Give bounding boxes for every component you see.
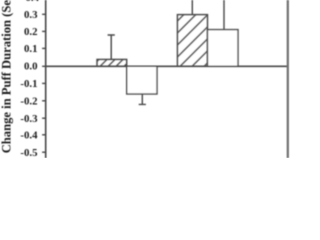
tick 0.2 (42, 30, 46, 32)
tick -0.5 (42, 151, 46, 153)
error bar 2 (139, 94, 146, 104)
tick -0.2 (42, 100, 46, 102)
tick 0.1 (42, 47, 46, 49)
svg-text:-0.3: -0.3 (20, 113, 38, 125)
svg-text:0.1: 0.1 (24, 43, 38, 55)
svg-text:0.2: 0.2 (24, 26, 38, 38)
zero baseline (45, 65, 288, 67)
bar 1 (hatched, +0.04) (97, 59, 127, 66)
svg-text:0.3: 0.3 (24, 9, 38, 21)
right edge vertical line (287, 0, 289, 158)
tick 0.3 (42, 13, 46, 15)
svg-text:-0.1: -0.1 (20, 78, 37, 90)
error bar 3 (cut at top) (191, 0, 193, 15)
tick -0.1 (42, 82, 46, 84)
bar 4 (open, +0.21) (208, 30, 239, 67)
tick -0.4 (42, 134, 46, 136)
y-axis line (45, 0, 47, 158)
svg-text:-0.5: -0.5 (20, 147, 37, 158)
svg-text:Change in Puff Duration (Sec): Change in Puff Duration (Sec) (0, 0, 14, 153)
error bar 4 (cut at top) (223, 0, 225, 30)
svg-text:-0.2: -0.2 (20, 96, 37, 108)
error bar 1 (108, 35, 115, 59)
tick -0.3 (42, 117, 46, 119)
bar 3 (hatched, +0.30) (177, 15, 207, 67)
svg-text:-0.4: -0.4 (20, 130, 38, 142)
svg-text:0.0: 0.0 (24, 61, 38, 73)
tick 0.0 (42, 65, 46, 67)
svg-text:0.4: 0.4 (26, 0, 40, 4)
bar 2 (open, -0.16) (127, 66, 157, 94)
